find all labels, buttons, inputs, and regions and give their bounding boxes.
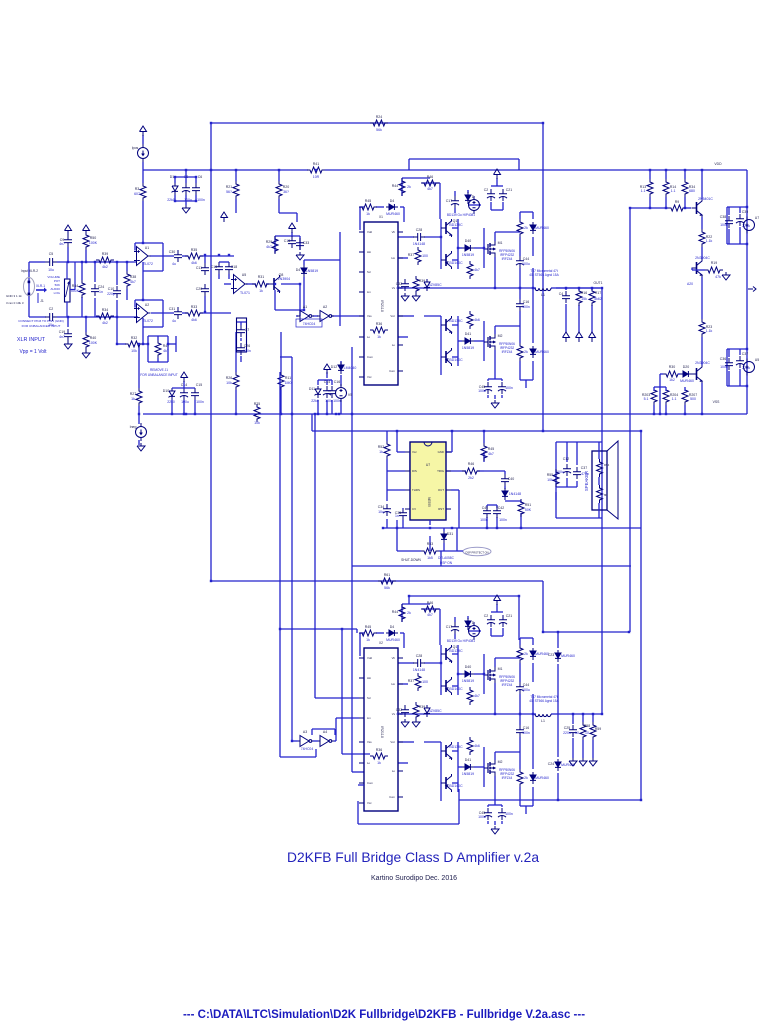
wire	[360, 206, 364, 208]
diode D20	[680, 371, 692, 377]
zener D62 BZV85C	[424, 705, 431, 717]
wire	[467, 190, 469, 193]
wire	[520, 637, 533, 639]
wire	[126, 289, 128, 300]
wire	[491, 635, 503, 637]
svg-text:V5: V5	[348, 393, 352, 397]
svg-text:NE555: NE555	[427, 497, 431, 507]
wire	[452, 259, 458, 261]
svg-text:DSP ON: DSP ON	[440, 561, 453, 565]
diode D432 MUR460	[530, 772, 536, 784]
svg-text:1k: 1k	[366, 638, 370, 642]
wire	[542, 123, 544, 431]
svg-text:R61: R61	[384, 573, 390, 577]
svg-text:MUR460: MUR460	[535, 226, 549, 230]
svg-text:U7: U7	[755, 216, 760, 220]
svg-text:Kartino Surodipo Dec. 2016: Kartino Surodipo Dec. 2016	[371, 875, 457, 882]
wire	[359, 207, 361, 230]
svg-text:C2: C2	[484, 188, 489, 192]
svg-text:220n: 220n	[563, 731, 571, 735]
svg-text:R46: R46	[468, 462, 474, 466]
wire	[495, 231, 520, 233]
resistor R361	[370, 327, 388, 333]
zener D1	[172, 183, 179, 195]
svg-text:C17: C17	[446, 625, 452, 629]
wire	[532, 714, 534, 769]
jumper J1 box	[237, 318, 247, 352]
wire	[532, 361, 534, 380]
transistor Q8 2N3904	[269, 275, 280, 293]
svg-text:2N3904C: 2N3904C	[695, 256, 710, 260]
resistor R34 in	[96, 313, 114, 319]
capacitor C162	[516, 725, 524, 737]
resistor R391	[413, 276, 419, 294]
wire	[727, 348, 747, 350]
diode D23 MUR460	[555, 650, 561, 662]
wire	[684, 197, 686, 208]
diode D171	[465, 192, 471, 204]
wire	[446, 470, 466, 472]
resistor R481	[467, 261, 473, 279]
capacitor C172 bootstrap	[451, 622, 459, 634]
capacitor C161	[516, 299, 524, 311]
zener D10	[169, 388, 176, 400]
wire	[572, 738, 574, 758]
wire	[483, 321, 485, 361]
svg-text:Lin: Lin	[367, 290, 371, 294]
svg-text:22k0: 22k0	[311, 399, 319, 403]
wire	[183, 400, 185, 414]
wire	[351, 347, 353, 772]
capacitor C8	[182, 183, 190, 195]
diode D421 MUR460	[530, 222, 536, 234]
svg-text:A4: A4	[323, 730, 327, 734]
svg-text:100n: 100n	[243, 349, 251, 353]
svg-text:74HC04: 74HC04	[301, 747, 314, 751]
wire	[312, 430, 641, 432]
svg-text:100: 100	[422, 254, 428, 258]
wire	[576, 481, 578, 487]
svg-text:J1: J1	[40, 299, 44, 303]
wire	[488, 804, 502, 806]
svg-text:D41: D41	[465, 758, 471, 762]
resistor R421	[517, 219, 523, 237]
wire	[468, 204, 481, 206]
resistor R41 rail	[307, 167, 325, 173]
resistor R203	[651, 387, 657, 405]
wire	[331, 380, 333, 385]
wire	[297, 740, 298, 742]
wire	[148, 361, 168, 363]
wire	[739, 349, 741, 355]
wire	[400, 632, 404, 634]
supply flag	[494, 169, 501, 179]
svg-text:C38: C38	[720, 215, 726, 219]
svg-text:1.1: 1.1	[671, 189, 676, 193]
wire	[358, 784, 364, 786]
wire	[525, 380, 527, 388]
mosfet M22	[484, 760, 495, 776]
svg-text:R36: R36	[376, 322, 382, 326]
resistor R431	[517, 343, 523, 361]
wire	[678, 373, 680, 375]
svg-text:DTLA058C: DTLA058C	[438, 556, 454, 560]
svg-text:R11: R11	[285, 376, 291, 380]
wire	[398, 257, 408, 259]
svg-text:10u: 10u	[378, 510, 384, 514]
wire	[218, 274, 220, 279]
capacitor C30	[174, 250, 182, 262]
svg-text:U5: U5	[755, 358, 760, 362]
ground	[401, 293, 409, 301]
resistor R29	[272, 236, 278, 254]
diode D41 MUR460	[386, 204, 398, 210]
diode D42 MUR460	[386, 630, 398, 636]
svg-text:3 ran 0 10k 3: 3 ran 0 10k 3	[6, 301, 24, 305]
wire	[142, 343, 148, 345]
wire	[296, 213, 298, 222]
svg-text:Vcc: Vcc	[390, 740, 395, 744]
wire	[565, 317, 567, 332]
svg-text:74HC04: 74HC04	[303, 322, 316, 326]
wire	[519, 288, 521, 299]
resistor R21	[233, 181, 239, 199]
capacitor C39	[736, 214, 744, 226]
wire	[727, 243, 747, 245]
wire	[556, 287, 600, 289]
wire	[686, 207, 691, 209]
wire	[280, 756, 316, 758]
wire	[174, 195, 176, 201]
source V41 12V	[469, 196, 480, 214]
op-amp U5 TL071	[231, 275, 248, 294]
svg-text:R36: R36	[376, 748, 382, 752]
svg-text:C16: C16	[523, 300, 529, 304]
svg-text:1k: 1k	[366, 212, 370, 216]
svg-text:R30: R30	[669, 365, 675, 369]
wire	[691, 268, 693, 270]
wire	[504, 471, 506, 474]
svg-text:BD140C: BD140C	[449, 358, 463, 362]
svg-text:22k0: 22k0	[167, 400, 175, 404]
resistor R451	[359, 204, 377, 210]
svg-text:D31: D31	[447, 532, 453, 536]
wire	[630, 207, 668, 209]
resistor R9	[668, 205, 686, 211]
wire	[439, 183, 441, 219]
wire	[494, 776, 496, 805]
wire	[578, 288, 580, 290]
svg-text:Ho: Ho	[391, 256, 395, 260]
capacitor C2	[45, 313, 57, 321]
wire	[452, 227, 458, 229]
svg-text:BZV85C: BZV85C	[428, 283, 442, 287]
svg-text:REMOVE J1: REMOVE J1	[150, 368, 168, 372]
wire	[81, 297, 83, 317]
svg-text:C23: C23	[548, 653, 554, 657]
resistor R44 input	[79, 280, 85, 298]
wire	[85, 250, 87, 262]
wire	[701, 337, 703, 365]
buffer A4 74HC04	[317, 736, 334, 747]
wire	[397, 550, 421, 552]
svg-text:Vdd: Vdd	[367, 230, 372, 234]
svg-text:GND 3 1 1k: GND 3 1 1k	[6, 294, 22, 298]
capacitor C15	[191, 388, 199, 400]
wire	[654, 386, 666, 388]
svg-text:4u: 4u	[172, 262, 176, 266]
wire	[440, 742, 442, 801]
svg-text:R27: R27	[130, 392, 136, 396]
svg-text:D40: D40	[465, 665, 471, 669]
wire	[484, 470, 505, 472]
wire	[566, 478, 568, 487]
svg-text:Vss: Vss	[367, 740, 372, 744]
wire	[151, 312, 174, 314]
wire	[138, 344, 140, 388]
svg-text:MUR460: MUR460	[535, 776, 549, 780]
wire	[280, 628, 357, 630]
wire	[443, 528, 445, 531]
capacitor C14b	[323, 386, 331, 398]
wire	[532, 268, 534, 288]
wire	[496, 604, 498, 612]
wire	[458, 490, 460, 528]
svg-text:Input XLR-2: Input XLR-2	[21, 269, 38, 273]
wire	[439, 609, 441, 645]
wire	[326, 400, 328, 414]
wire	[219, 261, 229, 263]
wire	[592, 740, 594, 758]
wire	[315, 749, 317, 757]
svg-text:500: 500	[690, 397, 696, 401]
svg-text:1N4148: 1N4148	[413, 242, 425, 246]
capacitor C171 bootstrap	[451, 196, 459, 208]
svg-text:C33: C33	[303, 241, 309, 245]
svg-text:1.1k: 1.1k	[706, 239, 713, 243]
wire	[397, 451, 405, 453]
transistor Q22 BD140	[441, 677, 452, 695]
wire	[175, 176, 196, 178]
svg-text:BD140C: BD140C	[449, 687, 463, 691]
connector U7 output	[744, 217, 755, 234]
svg-text:4k7: 4k7	[130, 280, 136, 284]
wire	[490, 628, 492, 636]
svg-text:R3: R3	[135, 187, 140, 191]
supply flag	[83, 225, 90, 235]
svg-text:2k: 2k	[524, 652, 528, 656]
wire	[649, 170, 651, 179]
wire	[240, 338, 242, 341]
supply flag	[324, 364, 331, 374]
svg-text:GND: GND	[438, 450, 444, 454]
resistor R52	[384, 441, 390, 459]
svg-text:C25: C25	[564, 726, 570, 730]
wire	[459, 799, 641, 801]
svg-text:C36: C36	[720, 357, 726, 361]
wire	[520, 379, 533, 381]
wire	[556, 486, 577, 488]
wire	[728, 207, 730, 215]
ground	[137, 443, 145, 451]
wire	[474, 673, 484, 675]
wire	[331, 315, 364, 317]
wire	[81, 262, 83, 280]
wire	[326, 380, 328, 385]
wire	[341, 629, 343, 754]
wire	[398, 315, 414, 317]
ground	[569, 758, 577, 766]
wire	[275, 235, 300, 237]
zener D11	[315, 386, 322, 398]
wire	[401, 604, 403, 622]
wire	[317, 380, 319, 385]
capacitor C6	[192, 183, 200, 195]
svg-text:100n: 100n	[196, 400, 204, 404]
wire	[326, 372, 328, 378]
resistor R17	[589, 288, 595, 306]
wire	[519, 714, 521, 725]
svg-text:MUR460: MUR460	[535, 350, 549, 354]
wire	[318, 379, 332, 381]
svg-text:D2KFB Full Bridge Class D Ampl: D2KFB Full Bridge Class D Amplifier v.2a	[287, 850, 539, 865]
wire	[684, 387, 686, 391]
svg-text:C16: C16	[334, 380, 340, 384]
wire	[519, 212, 521, 219]
resistor R432	[517, 769, 523, 787]
svg-text:R59: R59	[595, 727, 601, 731]
svg-text:100u: 100u	[522, 688, 530, 692]
svg-text:M2: M2	[498, 760, 503, 764]
wire	[429, 520, 431, 525]
wire	[496, 517, 498, 528]
wire	[403, 633, 405, 648]
IC gate driver U2 IR2110	[364, 648, 398, 811]
wire	[29, 316, 46, 318]
ground	[579, 758, 587, 766]
wire	[142, 271, 144, 300]
resistor R16	[576, 288, 582, 306]
svg-text:FOR UNBALANCED INPUT: FOR UNBALANCED INPUT	[22, 324, 61, 328]
svg-text:5k62: 5k62	[594, 297, 602, 301]
capacitor C441	[516, 256, 524, 268]
ground	[722, 272, 730, 280]
svg-text:R41: R41	[313, 162, 319, 166]
ground	[296, 252, 304, 260]
svg-text:C37: C37	[742, 352, 748, 356]
transistor Q21 BD140	[441, 251, 452, 269]
wire	[532, 663, 534, 682]
svg-text:C28: C28	[416, 654, 422, 658]
svg-text:M1: M1	[498, 667, 503, 671]
resistor R31	[252, 281, 270, 287]
wire	[174, 177, 176, 183]
current source Ineg	[136, 423, 147, 441]
wire	[138, 406, 140, 414]
svg-text:RST: RST	[438, 507, 444, 511]
IC U7 NE555 timer	[410, 442, 446, 520]
svg-text:4k7: 4k7	[163, 349, 169, 353]
capacitor C10 mid	[113, 286, 121, 298]
wire	[195, 195, 197, 201]
wire	[501, 821, 503, 824]
svg-text:BD139C: BD139C	[449, 223, 463, 227]
svg-text:Vcc: Vcc	[390, 314, 395, 318]
wire	[457, 645, 459, 695]
wire	[557, 773, 559, 800]
capacitor C41	[483, 506, 491, 518]
svg-text:1k: 1k	[259, 289, 263, 293]
wire	[665, 197, 667, 208]
wire	[409, 453, 411, 471]
svg-text:100: 100	[422, 680, 428, 684]
svg-text:DIS: DIS	[412, 469, 417, 473]
wire	[422, 608, 440, 610]
wire	[360, 632, 364, 634]
wire	[204, 256, 206, 263]
diode D31 LED	[441, 531, 447, 543]
wire	[458, 789, 460, 824]
wire	[211, 580, 543, 582]
svg-text:100n: 100n	[197, 198, 205, 202]
svg-text:22k0: 22k0	[167, 198, 175, 202]
svg-text:4n7: 4n7	[59, 335, 65, 339]
svg-text:500K: 500K	[71, 289, 80, 293]
wire	[598, 503, 600, 518]
wire	[396, 520, 398, 551]
wire	[291, 232, 293, 236]
ground	[589, 758, 597, 766]
svg-text:C14: C14	[324, 380, 330, 384]
svg-text:IRFZ44: IRFZ44	[502, 683, 513, 687]
wire	[440, 551, 442, 566]
wire	[303, 260, 305, 265]
wire	[665, 405, 667, 414]
svg-text:THRS: THRS	[412, 488, 420, 492]
wire	[228, 274, 230, 279]
svg-text:SHUT-DOWN: SHUT-DOWN	[401, 558, 421, 562]
wire	[501, 395, 503, 398]
flag DSP PROTECT ON	[463, 547, 491, 555]
svg-text:BD140C: BD140C	[449, 261, 463, 265]
svg-text:1M0: 1M0	[285, 381, 292, 385]
speaker LS1	[592, 451, 607, 510]
wire	[440, 316, 442, 375]
wire	[28, 262, 30, 317]
wire	[488, 378, 502, 380]
wire	[582, 740, 584, 758]
wire	[684, 170, 686, 179]
wire	[495, 751, 520, 753]
svg-text:C13: C13	[211, 265, 217, 269]
resistor R53 shutdown	[421, 548, 439, 554]
svg-text:1.1k: 1.1k	[706, 329, 713, 333]
wire	[352, 771, 364, 773]
wire	[138, 414, 140, 424]
wire	[200, 312, 231, 314]
capacitor C461	[498, 382, 506, 394]
wire	[29, 261, 45, 263]
svg-text:100n: 100n	[480, 518, 488, 522]
connector XLR jack	[24, 278, 35, 296]
svg-text:TL072: TL072	[143, 262, 153, 266]
wire	[85, 317, 87, 332]
svg-text:2k: 2k	[407, 611, 411, 615]
wire	[398, 762, 408, 764]
wire	[175, 200, 196, 202]
svg-text:10R: 10R	[313, 175, 320, 179]
wire	[278, 170, 280, 181]
